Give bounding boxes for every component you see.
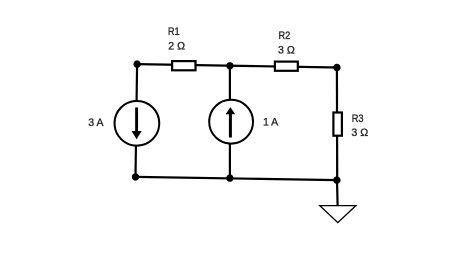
node C junction dot: [333, 64, 340, 71]
node B junction dot: [226, 62, 233, 69]
node A junction dot: [133, 60, 140, 67]
wire right vertical C-F: [336, 68, 339, 181]
resistor R3: [333, 113, 342, 136]
resistor R1: [172, 61, 195, 70]
wire middle vertical B-E: [229, 66, 231, 178]
svg-text:R1: R1: [168, 26, 180, 38]
svg-text:2 Ω: 2 Ω: [168, 40, 185, 52]
wire F to ground: [336, 180, 339, 205]
svg-text:1 A: 1 A: [263, 117, 279, 129]
wire left vertical A-D: [136, 64, 138, 177]
svg-text:3 A: 3 A: [88, 117, 104, 129]
node D junction dot: [132, 173, 139, 180]
svg-text:R3: R3: [352, 113, 364, 125]
svg-text:3 Ω: 3 Ω: [351, 127, 368, 139]
current source I2 arrow (up): [229, 114, 232, 138]
wire top bus A-B-C: [137, 64, 337, 67]
resistor R2: [275, 62, 298, 71]
wire bottom bus D-E-F: [136, 177, 337, 180]
current source I1 arrow (down): [135, 108, 138, 132]
node E junction dot: [226, 174, 233, 181]
node F junction dot: [333, 176, 340, 183]
svg-text:3 Ω: 3 Ω: [278, 45, 295, 57]
current source I2 circle: [209, 100, 253, 144]
current source I1 circle: [115, 101, 160, 146]
svg-text:R2: R2: [279, 30, 291, 42]
ground: [320, 206, 356, 223]
